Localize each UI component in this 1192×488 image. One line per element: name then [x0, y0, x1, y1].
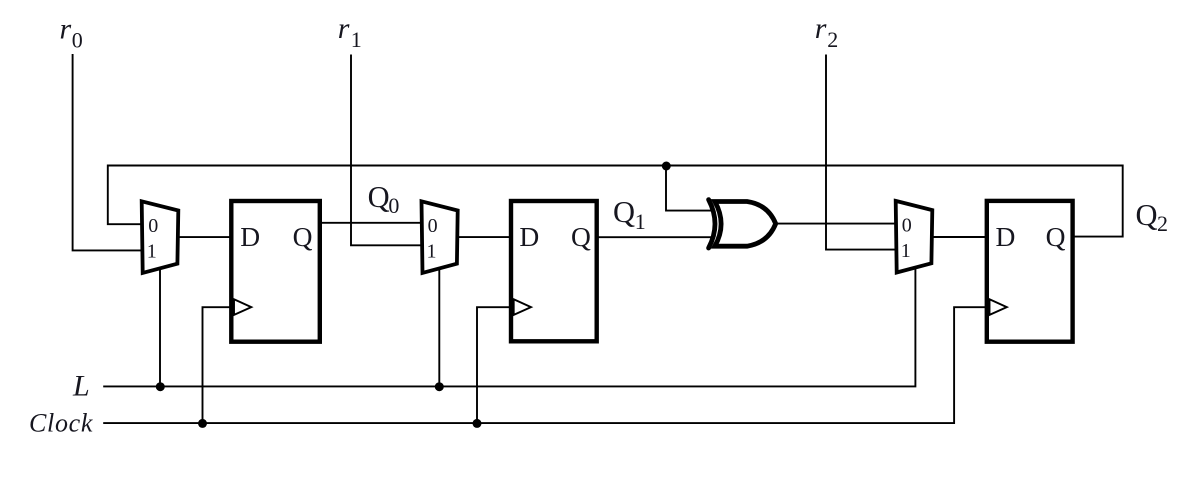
svg-text:Q: Q: [368, 180, 390, 214]
FF3 clock triangle: [990, 299, 1007, 315]
svg-text:D: D: [240, 221, 260, 252]
svg-text:Q: Q: [571, 221, 591, 252]
wire FF1 clock: [203, 307, 234, 423]
wire r1 to mux U2 pin 1: [351, 55, 422, 246]
svg-text:D: D: [519, 221, 539, 252]
svg-text:0: 0: [388, 193, 399, 218]
wire Clock line (with rise to FF3 clock): [103, 307, 988, 423]
wire Q2 feedback (FF3 Q output, up and across top, down to mux U1 pin 0): [108, 166, 1123, 237]
wire mux U1 select: [159, 269, 161, 387]
svg-text:1: 1: [901, 240, 911, 262]
wire mux U1 output to FF1 D: [177, 236, 233, 238]
svg-text:1: 1: [147, 241, 157, 263]
junction node on feedback to XOR: [662, 162, 671, 171]
junction Clock / FF1 clock: [198, 419, 207, 428]
flip-flop FF2 body: [511, 201, 597, 341]
wire XOR G1 output to mux U3 pin 0: [775, 223, 898, 225]
svg-text:2: 2: [827, 27, 838, 52]
svg-text:L: L: [72, 369, 90, 402]
svg-text:0: 0: [902, 215, 912, 237]
wire mux U3 output to FF3 D: [931, 236, 988, 238]
mux U1 body: [142, 201, 179, 273]
junction Clock / FF2 clock: [473, 419, 482, 428]
svg-text:r: r: [338, 12, 350, 45]
mux U3 body: [896, 201, 933, 273]
svg-text:r: r: [815, 12, 827, 45]
svg-text:0: 0: [72, 27, 83, 52]
svg-text:Q: Q: [1046, 221, 1066, 252]
svg-text:1: 1: [427, 241, 437, 263]
svg-text:1: 1: [635, 209, 646, 234]
junction L / mux U1 select: [156, 382, 165, 391]
wire L line (with rise to mux U3 select): [103, 268, 915, 386]
svg-text:2: 2: [1157, 211, 1168, 236]
wire XOR G1 top input tap: [666, 166, 712, 211]
flip-flop FF1 body: [231, 201, 319, 342]
svg-text:0: 0: [428, 215, 438, 237]
svg-text:0: 0: [148, 215, 158, 237]
wire r0 to mux U1 pin 1: [73, 54, 143, 250]
svg-text:r: r: [60, 12, 72, 45]
svg-text:Q: Q: [1136, 198, 1158, 232]
FF1 clock triangle: [234, 299, 251, 315]
wire Q1 (FF2 Q to XOR G1 bottom input): [594, 236, 712, 238]
mux U2 body: [422, 201, 458, 273]
svg-text:Clock: Clock: [29, 409, 93, 438]
svg-text:Q: Q: [293, 221, 313, 252]
wire mux U2 select: [438, 269, 440, 387]
wire Q0 (FF1 Q to mux U2 pin 0): [317, 222, 422, 224]
wire FF2 clock: [477, 307, 513, 423]
wire mux U2 output to FF2 D: [456, 236, 513, 238]
junction L / mux U2 select: [435, 382, 444, 391]
flip-flop FF3 body: [987, 201, 1073, 342]
wire r2 to mux U3 pin 1: [826, 55, 897, 250]
XOR gate G1 input arc: [709, 200, 715, 248]
svg-text:1: 1: [351, 27, 362, 52]
FF2 clock triangle: [514, 299, 531, 315]
svg-text:D: D: [996, 221, 1016, 252]
svg-text:Q: Q: [613, 195, 635, 229]
XOR gate G1 body: [715, 202, 776, 247]
